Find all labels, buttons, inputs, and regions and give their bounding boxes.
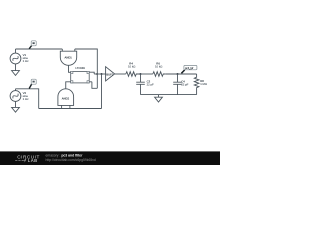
IC U1 LTC049 bbox=[71, 71, 90, 83]
svg-text:1 MΩ: 1 MΩ bbox=[200, 82, 207, 86]
wire U1 pin 2 stub right bbox=[89, 72, 94, 74]
wire V2 top stem bbox=[15, 89, 17, 91]
svg-text:22 pF: 22 pF bbox=[147, 82, 154, 86]
junction dot B bbox=[101, 73, 103, 75]
svg-text:1 Hz: 1 Hz bbox=[23, 59, 29, 63]
wire R6 to R8 corner bbox=[166, 73, 197, 75]
label R4 10 kOhm bbox=[128, 61, 135, 68]
wire net Y down to AND2 rail bbox=[101, 74, 103, 109]
ground below V1 bbox=[12, 71, 20, 76]
wire bottom rail of filter bbox=[141, 94, 197, 96]
svg-text:10 kΩ: 10 kΩ bbox=[128, 64, 135, 68]
node flag pc3_lpf bbox=[181, 65, 197, 73]
wire AND2 output to U1 pin 3 bbox=[66, 82, 71, 89]
junction net X at buffer wire bbox=[96, 73, 98, 75]
node flag m (on V1 wire) bbox=[29, 41, 36, 49]
svg-text:10 kΩ: 10 kΩ bbox=[155, 64, 162, 68]
ground (filter) bbox=[155, 97, 163, 102]
label C3 22 pF bbox=[147, 79, 154, 86]
CircuitLab logo bbox=[15, 155, 40, 163]
junction node C bbox=[140, 73, 142, 75]
resistor R8 (vertical) bbox=[194, 74, 199, 95]
ground below V2 bbox=[12, 107, 20, 112]
voltage source V1 bbox=[10, 53, 21, 64]
svg-text:AND2: AND2 bbox=[62, 97, 70, 101]
wire net X hook to U1 pin 4 bbox=[92, 82, 97, 89]
wire AND1 right input to net X bbox=[75, 49, 98, 88]
watermark bar bbox=[0, 151, 220, 165]
node flag m2 (on V2 wire) bbox=[29, 79, 36, 88]
svg-text:LTC049: LTC049 bbox=[75, 66, 85, 70]
wire AND2 bottom rail bbox=[39, 108, 102, 110]
wire V2 bottom stem bbox=[15, 101, 17, 107]
resistor R6 bbox=[153, 72, 166, 77]
resistor R4 bbox=[126, 72, 141, 77]
svg-text:AND1: AND1 bbox=[65, 56, 73, 60]
label LTC049 bbox=[75, 66, 85, 70]
label R6 10 kOhm bbox=[155, 61, 162, 68]
wire AND1 output to U1 pin 1 bbox=[69, 65, 71, 72]
wire V2 to AND2 input a bbox=[16, 89, 39, 109]
wire buffer output to R4 bbox=[115, 73, 126, 75]
capacitor C3 bbox=[136, 74, 145, 95]
wire V1 to AND1 input a bbox=[16, 48, 63, 50]
wire V1 top stem bbox=[15, 49, 17, 53]
svg-text:LAB: LAB bbox=[28, 158, 38, 163]
AND2 input pin stubs bbox=[62, 105, 70, 108]
capacitor C4 bbox=[173, 74, 182, 95]
wire node C to R6 bbox=[141, 73, 153, 75]
voltage source V2 bbox=[10, 91, 21, 102]
svg-text:http://circuitlab.com/c6pg59k6: http://circuitlab.com/c6pg59k65vd bbox=[46, 158, 96, 162]
AND1 input pin stubs bbox=[62, 49, 75, 51]
AND gate AND2 (pointing up) bbox=[58, 89, 74, 106]
wire ground stub bbox=[158, 95, 160, 98]
wire V1 bottom stem bbox=[15, 64, 17, 71]
svg-text:1 Hz: 1 Hz bbox=[23, 97, 29, 101]
label V1 sine 1 Hz bbox=[23, 53, 29, 63]
svg-text:BUF1: BUF1 bbox=[106, 72, 114, 76]
svg-text:pc3_lpf: pc3_lpf bbox=[185, 66, 194, 70]
buffer U2 bbox=[106, 67, 115, 81]
svg-text:22 pF: 22 pF bbox=[181, 82, 188, 86]
AND gate AND1 (pointing down) bbox=[60, 51, 76, 65]
label C4 22 pF bbox=[181, 79, 188, 86]
label V2 sine 1 Hz bbox=[23, 91, 29, 101]
label R8 1 MOhm bbox=[200, 79, 207, 86]
watermark title text bbox=[46, 154, 96, 162]
wire U1 to buffer input bbox=[94, 73, 105, 75]
wire U1 pin 3 stub right bbox=[89, 81, 92, 83]
junction dot D bbox=[177, 73, 179, 75]
